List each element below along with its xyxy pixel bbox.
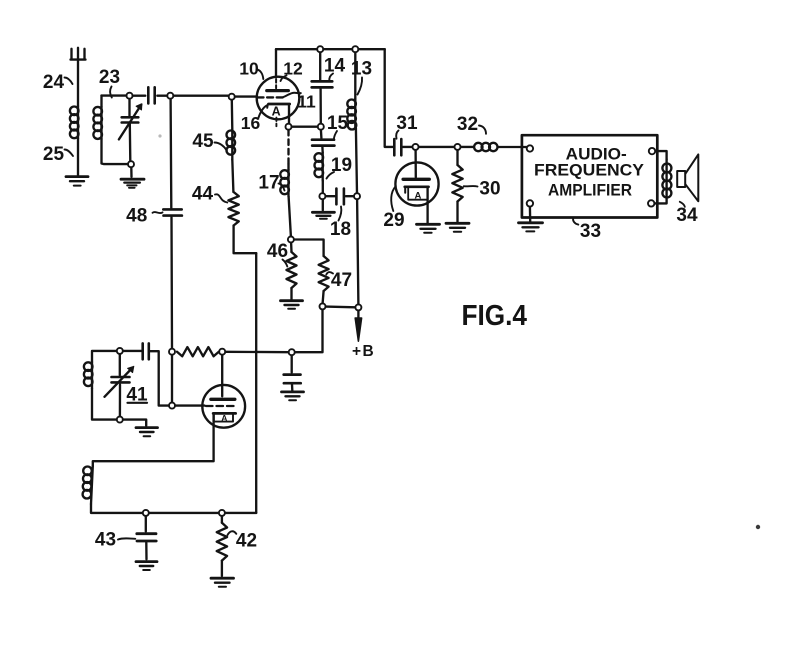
svg-text:29: 29 [383,210,404,231]
wire decoupling row to grid leak resistor right junction [225,351,289,354]
speaker (horn) [677,154,698,201]
wire cap 15 to coil 19 [321,147,324,153]
wire resistor 30 hang [456,150,458,165]
wire resistor 46 hang [290,243,293,253]
wire junction 47 right to +B junction [326,305,356,308]
ground below tube 29 [417,224,440,233]
wire cap 43 to ground [145,543,148,560]
capacitor 48 [163,209,182,215]
label 32 [457,114,486,135]
svg-text:24: 24 [43,72,65,93]
label 11 [297,92,316,112]
junction node: tube 20 grid entry [169,403,175,409]
svg-text:43: 43 [95,530,116,551]
triode 10 grid (dashed) [258,96,286,98]
inductor 45 [227,130,236,160]
ground below bypass capacitor [282,392,304,400]
ground below capacitor 43 [136,562,157,570]
label 17 [258,173,284,194]
junction node: coil 19 / cap 18 [319,193,325,199]
capacitor (series grid cap, between tank 23 and tube 10) [148,87,154,103]
wire variable cap 23 bottom lead [129,124,132,162]
wire coil 19 to junction 18 [322,181,324,194]
wire top bus from tube 10 plate lead to right corner [276,48,385,50]
wire variable cap 41 hang [119,354,121,375]
capacitor 14 [312,81,333,87]
label AUDIO-FREQUENCY AMPLIFIER [534,144,645,199]
amplifier box output terminal bottom [648,200,654,206]
wire resistor 47 bottom to junction [323,291,324,303]
svg-text:A: A [221,413,227,423]
wire resistor 42 to ground [221,561,223,576]
bypass capacitor at decoupling junction (unlabeled) [284,375,301,384]
wire cap 15 hang below junction [320,130,323,138]
triode 20 filament box [214,415,233,422]
triode 10 plate lead (top, dash inside) [275,49,277,88]
junction node: +B [355,304,361,310]
faint ink speck [158,134,161,137]
capacitor 15 [312,140,334,146]
svg-text:A: A [414,190,421,201]
junction node: bottom bus / resistor 42 [219,510,225,516]
grid leak resistor (unlabeled, horizontal) [177,347,219,356]
triode 20 grid (dashed) [206,405,237,407]
label 47 [326,270,352,291]
wire tube 20 plate lead up to grid leak junction [221,355,223,397]
amplifier box output terminal top [649,148,655,154]
junction node: tube 10 cathode right / cap 14-15 [318,124,324,130]
wire cap31 to junction at tube 29 plate [403,146,414,148]
antenna 24 symbol [71,48,86,60]
junction node: coil 17 / resistors 46 47 [288,237,294,243]
svg-text:32: 32 [457,114,478,135]
junction node: tank 41 bottom [117,417,123,423]
wire tank 23 bottom row [102,139,128,164]
wire resistor 44 bottom to long vertical [234,226,257,254]
wire coil 13 top lead from top bus [354,52,356,99]
wire bypass cap to ground [291,384,294,390]
amplifier box 33 [522,135,657,217]
junction node: top bus / cap 14 [317,46,323,52]
label 14 [324,56,346,82]
svg-text:16: 16 [241,113,261,133]
wire tube 20 grid solid segment [175,404,205,406]
wire junction 46 right to resistor 47 top [294,240,324,257]
svg-text:31: 31 [396,113,418,134]
wire ground hang below junction 18 [322,199,324,210]
junction node: cap 18 / coil 13 column [354,193,360,199]
junction node: grid leak left / cap 48 column [169,349,175,355]
svg-text:17: 17 [258,173,279,194]
svg-text:18: 18 [330,219,351,240]
junction node: tank23 bottom ground [128,161,134,167]
triode 10 cathode bar [267,104,290,108]
wire tank 23 coil top lead [100,96,102,107]
triode 20 cathode bar [213,412,235,415]
label 25 [43,144,73,165]
svg-text:AMPLIFIER: AMPLIFIER [548,180,632,199]
junction node: coil 45 tap on grid wire [229,94,235,100]
wire tank 23 top to series cap [102,94,146,96]
ground below resistor 42 [211,578,234,587]
svg-text:30: 30 [479,179,500,200]
wire tube10 cathode branch down to coil 17 (dashed scan style) [287,130,289,164]
svg-text:14: 14 [324,56,346,77]
inductor 34 (speaker coil) [662,159,671,197]
junction node: bottom bus / cap 43 [143,510,149,516]
label 42 [228,531,258,552]
amplifier box ground terminal [527,200,533,206]
svg-text:10: 10 [239,59,259,79]
junction node: grid leak right / tube 20 plate [219,349,225,355]
junction node: tank 41 top [117,348,123,354]
resistor 30 [452,165,462,202]
wire tube 20 cathode lead down and left [93,413,214,466]
svg-text:48: 48 [126,206,147,227]
svg-text:+B: +B [352,343,375,360]
wire cap 14 bottom lead to cathode junction [319,89,322,124]
triode 10 cathode lead curve to label 16 [258,105,267,118]
wire coil 13 bottom to junction 18 row [356,128,357,193]
amplifier box input terminal [527,145,533,151]
wire coil 45 to resistor 44 [232,160,233,193]
inductor 19 [315,153,324,181]
junction node: tube 10 cathode left [286,124,292,130]
wire bottom bus middle [149,512,219,514]
diode 29 filament box [408,188,427,200]
wire resistor 30 to ground [456,202,458,222]
junction node: grid cap right / cap48 top [167,93,173,99]
label 10 [239,59,263,80]
wire tube 29 cathode to ground [426,187,428,223]
inductor 23 (antenna tank coil) [93,107,102,140]
svg-text:11: 11 [297,92,316,112]
wire coil 32 to amplifier box input terminal [499,146,528,148]
svg-text:FIG.4: FIG.4 [462,300,528,332]
oscillator grid series capacitor (unlabeled, left of tube 20) [143,343,149,359]
svg-text:13: 13 [351,59,372,80]
label 29 [383,187,404,232]
svg-text:23: 23 [99,67,120,88]
wire coil 25 to ground [77,139,79,176]
triode 10 filament dashed lead [275,118,277,127]
wire junction 29 to junction 30 [417,146,456,148]
ground below tank 23 [121,179,144,188]
wire cap 18 right plate to coil 13 column [346,195,354,197]
wire variable cap 23 hang from top junction [128,99,130,116]
wire junction 30 to coil 32 [459,146,474,148]
label 12 [281,59,303,82]
wire coil 34 bottom to amplifier output bottom [654,198,666,204]
wire inductor 45 branch: junction on grid wire down to coil 45 [231,100,234,130]
inductor 13 [347,99,356,130]
label 46 [267,241,288,267]
triode 20 (oscillator tube) envelope [202,385,245,428]
label 15 [327,113,349,140]
capacitor 18 [336,189,344,205]
ground below amplifier box [519,223,543,232]
label 45 [192,131,226,152]
wire bypass cap hang below junction [291,355,293,372]
resistor 47 [319,256,329,291]
wire cap 14 top lead [319,52,321,80]
junction node: tank23 top [127,93,133,99]
wire oscillator cap output: right plate over and down to tube 20 grid row [150,351,169,405]
inductor of oscillator tank 41 [84,362,93,389]
capacitor 31 [394,139,401,155]
svg-text:45: 45 [192,131,214,152]
label 33 [573,218,601,242]
svg-text:33: 33 [580,221,601,242]
+B arrow [355,318,361,341]
wire tank 41 bottom row [92,389,146,426]
variable capacitor of tank 23 [119,104,142,140]
svg-text:47: 47 [331,270,352,291]
triode 10 envelope [257,77,300,120]
label 19 [327,155,353,179]
wire grid feed: cap to tube 10 grid [157,95,257,98]
wire amplifier output top to coil 34 [655,151,666,159]
label 43 [95,530,135,551]
wire cap 43 hang [145,516,147,532]
diode 29 envelope [395,162,438,205]
inductor 17 [280,170,289,197]
label 16 [241,113,261,133]
wire tube 10 cathode row [292,126,318,128]
wire variable cap 41 bottom lead [119,385,121,417]
ground below inductor 25 [66,177,88,186]
wire junction 18 row down to +B junction [357,199,358,304]
svg-text:34: 34 [676,205,698,226]
label 18 [330,207,351,241]
ground below resistor 46 [281,301,303,309]
label 34 [676,202,698,226]
triode 10 cathode right lead [288,105,290,124]
resistor 44 [228,192,238,226]
junction node: resistor 30 top [455,144,461,150]
label 44 [192,184,227,205]
label 41 (underlined) [126,385,148,406]
label 48 [126,206,162,227]
diode 29 plate bar [403,178,429,181]
resistor 42 [217,523,227,561]
wire tube 29 plate lead [414,150,417,177]
junction node: top bus / coil 13 [352,46,358,52]
wire junction 47 down to decoupling row [295,309,323,352]
wire resistor 46 bottom to ground [290,288,292,299]
wire right drop from top bus to detector coupling cap 31 [385,49,393,147]
diode 29 cathode bar [405,187,429,193]
wire +B arrow stub [357,310,359,317]
svg-text:FREQUENCY: FREQUENCY [534,161,645,180]
wire cap48 column end: through resistor junction down to tube 20 grid junction [171,355,173,403]
triode 20 plate bar [211,398,235,401]
wire coil 17 bottom to junction 46 [289,197,291,237]
wire tank 41 top row [92,351,141,362]
label 30 [464,179,501,200]
wire cap48 column lower: cap 48 down to grid-leak resistor junction [170,217,173,349]
variable capacitor 41 [105,366,134,397]
wire junction to cap 18 left plate [326,195,335,197]
svg-text:A: A [272,105,281,119]
wire resistor 42 hang [221,516,223,523]
wire amplifier ground lead [529,207,532,222]
label 31 [396,113,418,139]
triode 10 grid side lead to label 11 [283,93,301,98]
resistor 46 [287,252,297,288]
label 23 [99,67,120,98]
ground below tank 41 [136,428,158,437]
oscillator feedback coil (bottom left, unlabeled) [83,466,93,504]
junction node: cap 31 / tube 29 plate [413,144,419,150]
ground below resistor 30 [446,223,469,232]
svg-text:46: 46 [267,241,288,262]
wire bottom coil to bottom bus [91,504,143,513]
ground below junction of 18 and 19 [312,212,334,219]
wire antenna stem [77,60,79,106]
wire tank 23 ground hang [130,167,133,177]
label 24 [43,72,73,93]
wire cap48 column upper: junction on grid wire down to cap 48 [169,99,172,208]
wire bottom bus right to long vertical [225,512,256,514]
stray ink dot (scan artifact) [756,525,760,529]
wire long vertical right of tube 20 down to bottom bus [255,253,257,513]
svg-text:25: 25 [43,144,65,165]
inductor 32 [474,143,497,151]
label 13 [351,59,372,95]
svg-text:44: 44 [192,184,214,205]
junction node: resistor 47 bottom [320,303,326,309]
capacitor 43 [137,534,156,541]
inductor 25 [70,106,79,139]
triode 10 plate bar (12) [267,89,289,92]
junction node: bypass cap tap [289,349,295,355]
svg-text:42: 42 [236,531,257,552]
